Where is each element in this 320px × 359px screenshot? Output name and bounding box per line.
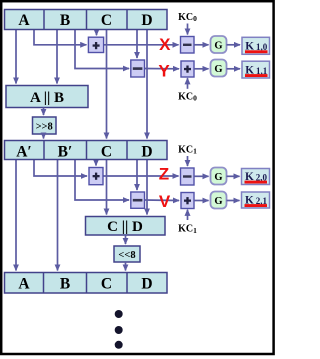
svg-text:D: D [141, 143, 152, 160]
subtractor1 (-) box [131, 60, 145, 77]
wire subtractor2r to G3 [194, 175, 209, 177]
wire subtractor to G1 [194, 44, 209, 46]
wire C to adder1 top [96, 30, 98, 36]
wire X: adder1 to KC0-subtractor [104, 44, 179, 46]
KC1 adder box [181, 193, 194, 209]
shift left <<8 box [114, 246, 140, 262]
svg-text:C || D: C || D [107, 219, 143, 235]
wire adder2r to G4 [194, 200, 209, 202]
ellipsis dot 1 [115, 310, 123, 318]
ellipsis dot 3 [115, 341, 123, 349]
svg-text:G: G [214, 64, 222, 75]
svg-text:G: G [214, 196, 222, 207]
G2 box [211, 60, 227, 77]
svg-text:A: A [18, 12, 30, 29]
svg-text:C: C [101, 143, 112, 160]
svg-text:V: V [159, 192, 171, 211]
wire KC0 bottom into adder [187, 78, 189, 89]
KC1 subtractor box [181, 168, 195, 185]
KC0 adder box [181, 61, 194, 77]
wire <<8 to row3 [125, 262, 127, 271]
row2 divider A'/B' [43, 141, 45, 160]
svg-text:KC0: KC0 [178, 12, 197, 23]
wire Y: subtractor1 to KC0-adder [145, 68, 180, 70]
wire D to subtractor1 top [136, 30, 138, 59]
row2 divider C/D [126, 141, 128, 160]
svg-text:>>8: >>8 [36, 122, 53, 133]
G3 box [211, 168, 227, 185]
row3 divider A/B [43, 273, 45, 294]
K1,1 output box [242, 61, 270, 78]
svg-text:<<8: <<8 [118, 250, 135, 261]
adder1 (+) box [88, 37, 103, 52]
svg-text:G: G [214, 172, 222, 183]
wire A' to adder2 [34, 160, 87, 177]
svg-text:Z: Z [159, 164, 169, 183]
wire B to subtractor1 [75, 30, 129, 69]
svg-text:B: B [60, 276, 70, 293]
wire KC1 bottom into adder [187, 210, 189, 220]
wire C to adder2 top [95, 160, 97, 166]
wire B' to subtractor2 [75, 160, 129, 201]
wire A to A||B [15, 30, 17, 84]
svg-text:B: B [60, 12, 70, 29]
wire C||D to <<8 [125, 235, 127, 244]
svg-text:A || B: A || B [30, 90, 64, 106]
row3 divider C/D [126, 273, 128, 294]
row1 divider C/D [126, 10, 128, 30]
wire A||B to >>8 [43, 108, 45, 116]
svg-text:B′: B′ [58, 143, 73, 160]
wire D to C||D [146, 160, 148, 215]
wire Z: adder2 to KC1-subtractor [103, 175, 179, 177]
row1 register block [5, 10, 168, 30]
shift right >>8 box [33, 117, 57, 134]
wire A to adder1 [34, 30, 86, 45]
wire G1 to K1,0 [227, 44, 241, 46]
svg-text:X: X [159, 35, 171, 54]
subtractor2 (-) box [131, 192, 145, 208]
KC0 subtractor box [181, 37, 195, 54]
svg-text:A′: A′ [16, 143, 32, 160]
adder2 (+) box [89, 168, 103, 185]
concat C||D box [86, 217, 166, 236]
K1,0 output box [242, 37, 270, 54]
svg-text:C: C [101, 276, 112, 293]
wire A' to row3 A [15, 160, 17, 271]
K2,1 output box [242, 192, 270, 208]
wire C to row2 C [106, 30, 108, 139]
svg-text:G: G [214, 41, 222, 52]
G4 box [211, 192, 227, 209]
wire KC0 into subtractor [187, 24, 189, 35]
K2,0 output box [242, 169, 270, 185]
svg-text:D: D [141, 276, 152, 293]
row3 divider B/C [86, 273, 88, 294]
row2 divider B'/C [86, 141, 88, 160]
wire D to subtractor2 top [136, 160, 138, 191]
G1 box [211, 36, 227, 53]
row1 divider A/B [43, 10, 45, 30]
concat A||B box [6, 86, 88, 108]
row2 register block [5, 141, 168, 160]
svg-text:C: C [101, 12, 112, 29]
wire G2 to K1,1 [227, 68, 241, 70]
svg-text:Y: Y [158, 62, 170, 81]
svg-text:A: A [18, 276, 30, 293]
wire G4 to K2,1 [227, 200, 240, 202]
wire D to row2 D [146, 30, 148, 139]
svg-text:KC0: KC0 [178, 92, 197, 103]
ellipsis dot 2 [115, 326, 123, 334]
svg-text:KC1: KC1 [178, 144, 197, 155]
wire adder to G2 [194, 68, 209, 70]
wire >>8 to row2 [43, 134, 45, 139]
row3 register block [5, 273, 168, 294]
wire B' to row3 B [57, 160, 59, 271]
svg-text:KC1: KC1 [178, 224, 197, 235]
wire KC1 into subtractor [187, 156, 189, 166]
wire B to A||B [56, 30, 58, 84]
wire G3 to K2,0 [227, 175, 240, 177]
svg-text:D: D [141, 12, 152, 29]
wire V: subtractor2 to KC1-adder [145, 199, 180, 202]
wire C to C||D [106, 160, 108, 215]
row1 divider B/C [86, 10, 88, 30]
